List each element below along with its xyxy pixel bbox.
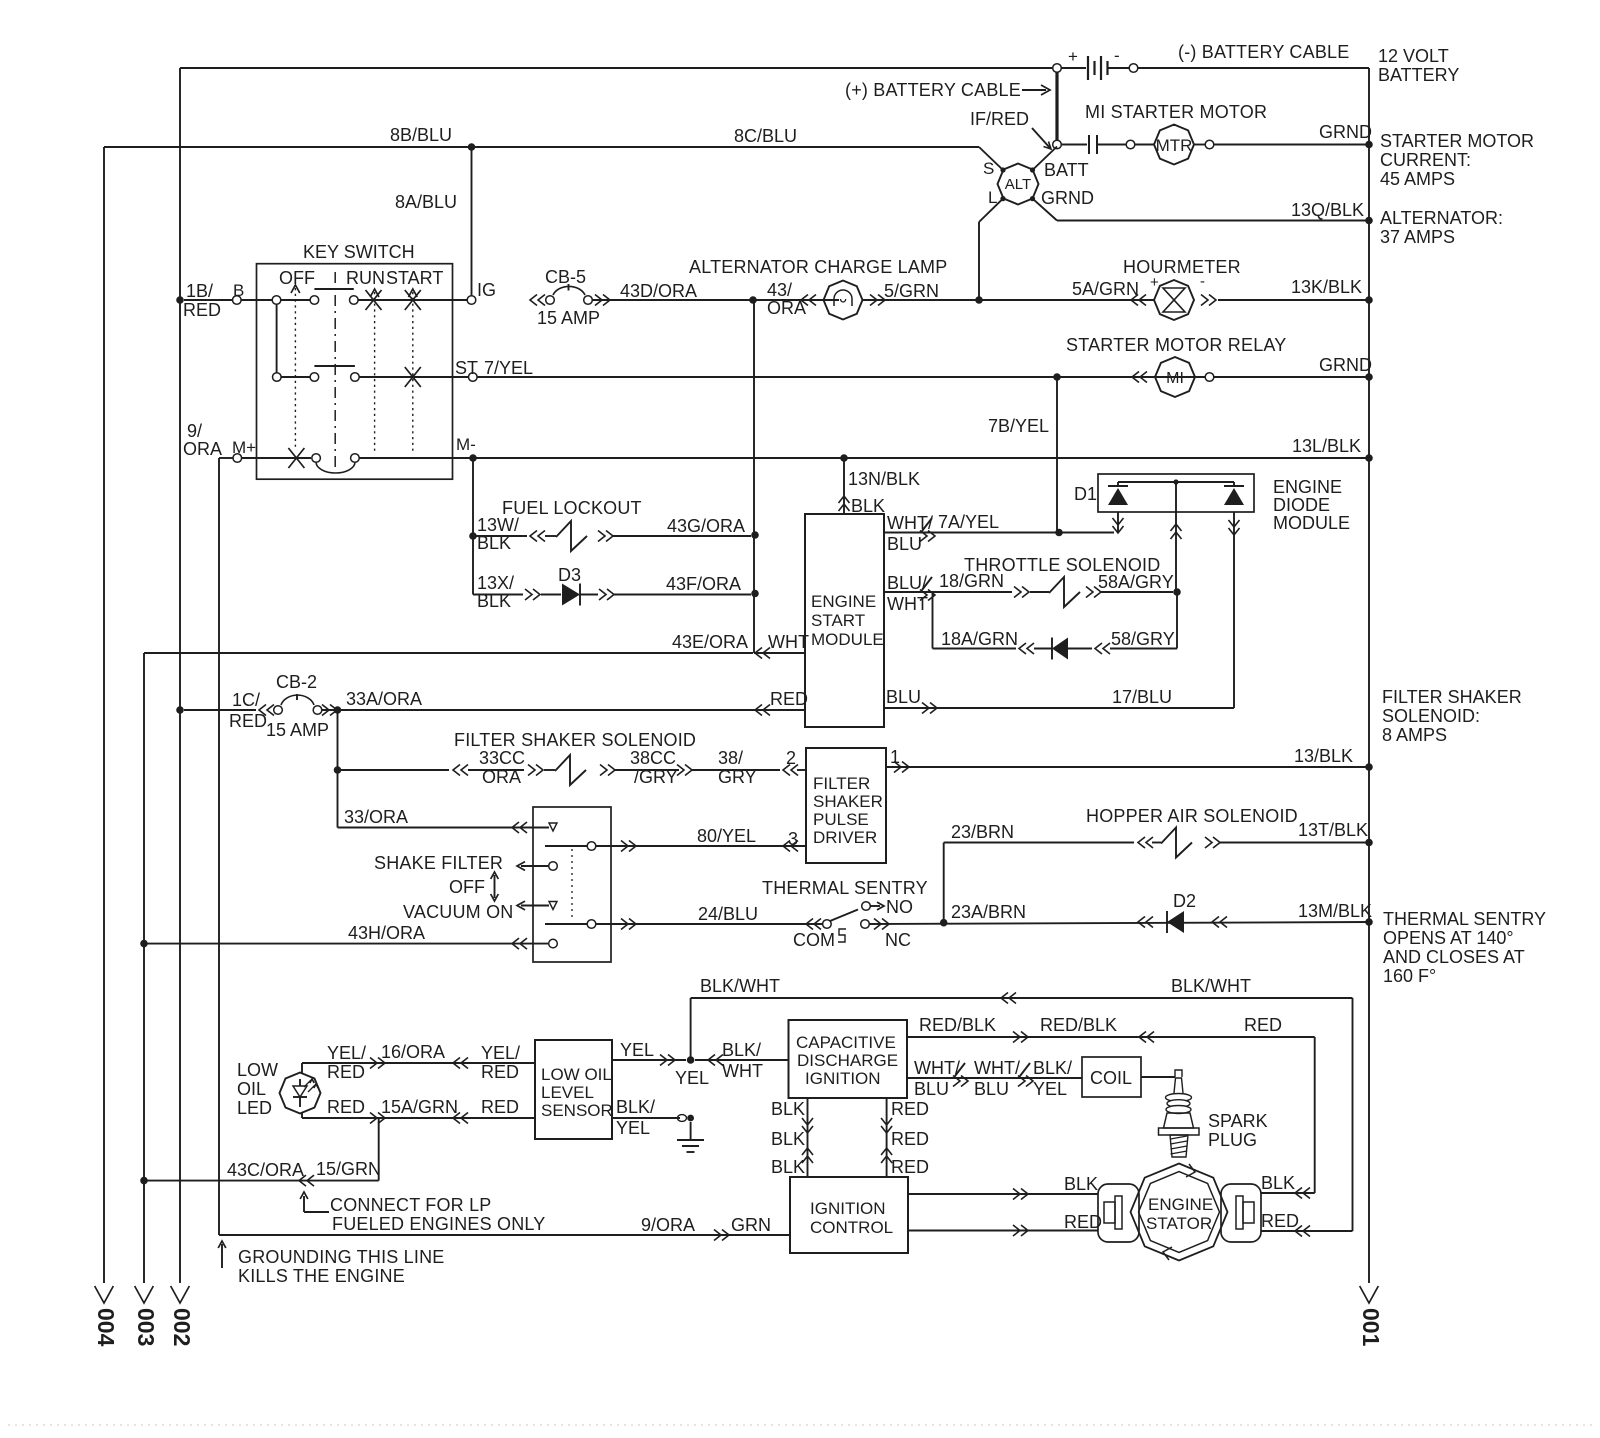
svg-text:RED: RED	[891, 1157, 929, 1177]
svg-text:43/: 43/	[767, 280, 792, 300]
svg-text:WHT/: WHT/	[914, 1058, 960, 1078]
svg-text:16/ORA: 16/ORA	[381, 1042, 445, 1062]
svg-text:13T/BLK: 13T/BLK	[1298, 820, 1368, 840]
wire 33A/ORA to ESM RED pin	[322, 689, 808, 716]
node 43C junction on bus 003	[140, 1177, 148, 1185]
svg-text:33A/ORA: 33A/ORA	[346, 689, 422, 709]
wire diode module right leg to 17/BLU	[1229, 512, 1240, 708]
node 43F junction	[751, 590, 759, 598]
svg-text:BATTERY: BATTERY	[1378, 65, 1459, 85]
hopper air solenoid	[944, 806, 1369, 923]
wire stator RED return right side	[1261, 998, 1353, 1237]
svg-text:YEL/: YEL/	[327, 1043, 366, 1063]
wire bus 003 (43E feed)	[133, 653, 159, 1346]
node 43G junction	[751, 531, 759, 539]
svg-text:/GRY: /GRY	[634, 767, 678, 787]
svg-text:ORA: ORA	[183, 439, 222, 459]
svg-text:BLU/: BLU/	[887, 573, 927, 593]
shake filter vacuum switch box	[533, 807, 611, 962]
svg-text:COM: COM	[793, 930, 835, 950]
node 43/ORA junction	[749, 280, 806, 318]
svg-text:BLU: BLU	[914, 1079, 949, 1099]
svg-text:13/BLK: 13/BLK	[1294, 746, 1353, 766]
node M- wire to bus junction	[1365, 454, 1373, 462]
svg-text:MTR: MTR	[1156, 136, 1193, 155]
svg-text:WHT: WHT	[722, 1061, 763, 1081]
svg-text:GRND: GRND	[1319, 355, 1372, 375]
wire BLK/WHT vertical to YEL node	[690, 998, 692, 1060]
svg-text:160 F°: 160 F°	[1383, 966, 1436, 986]
wire diode module center leg to 58A	[1171, 482, 1182, 592]
label off / vacuum on with arrow	[403, 872, 513, 922]
wire BLK/YEL sensor to ground	[612, 1097, 694, 1139]
svg-text:M+: M+	[232, 438, 256, 457]
svg-text:33/ORA: 33/ORA	[344, 807, 408, 827]
svg-text:18/GRN: 18/GRN	[939, 571, 1004, 591]
starter motor relay MI	[1066, 335, 1372, 397]
filter shaker pulse driver box	[806, 748, 886, 863]
svg-text:ALTERNATOR CHARGE LAMP: ALTERNATOR CHARGE LAMP	[689, 257, 947, 277]
node key switch IG terminal	[467, 280, 496, 304]
svg-text:KILLS THE ENGINE: KILLS THE ENGINE	[238, 1266, 405, 1286]
svg-text:IGNITION: IGNITION	[810, 1199, 886, 1218]
svg-text:DIODE: DIODE	[1273, 495, 1330, 515]
dashed line OFF position	[291, 285, 300, 450]
svg-text:RED: RED	[327, 1097, 365, 1117]
wire bus 004 (battery feed)	[93, 147, 119, 1347]
svg-text:38/: 38/	[718, 748, 743, 768]
svg-text:YEL: YEL	[620, 1040, 654, 1060]
svg-text:-: -	[1200, 273, 1205, 290]
wire 24/BLU switch to thermal sentry	[545, 904, 822, 930]
svg-text:B: B	[233, 281, 244, 300]
contact bridge bar row1	[314, 288, 353, 290]
label MI starter motor	[1085, 102, 1267, 122]
wire 7B/YEL vertical	[1056, 377, 1058, 533]
svg-text:ORA: ORA	[482, 767, 521, 787]
svg-text:9/: 9/	[187, 421, 202, 441]
svg-text:58/GRY: 58/GRY	[1111, 629, 1175, 649]
svg-text:+: +	[1068, 47, 1078, 66]
key switch box	[257, 242, 453, 479]
dashed line START position	[408, 289, 417, 452]
dash-dot mechanical link line	[334, 272, 336, 470]
svg-text:SPARK: SPARK	[1208, 1111, 1268, 1131]
svg-text:LED: LED	[237, 1098, 272, 1118]
wire coil to spark plug	[1141, 1076, 1175, 1078]
svg-text:SHAKE FILTER: SHAKE FILTER	[374, 853, 503, 873]
capacitive discharge ignition box	[789, 1020, 908, 1098]
svg-text:23A/BRN: 23A/BRN	[951, 902, 1026, 922]
svg-text:43D/ORA: 43D/ORA	[620, 281, 697, 301]
svg-text:M-: M-	[456, 435, 476, 454]
svg-text:CAPACITIVE: CAPACITIVE	[796, 1033, 896, 1052]
svg-text:13K/BLK: 13K/BLK	[1291, 277, 1362, 297]
wire 33/ORA to switch	[338, 807, 558, 833]
label 9/ORA	[183, 421, 222, 459]
filter shaker solenoid	[341, 730, 806, 787]
svg-text:13W/: 13W/	[477, 515, 519, 535]
svg-text:002: 002	[169, 1308, 195, 1346]
svg-text:15 AMP: 15 AMP	[537, 308, 600, 328]
svg-text:SENSOR: SENSOR	[541, 1101, 613, 1120]
svg-text:FILTER SHAKER: FILTER SHAKER	[1382, 687, 1522, 707]
svg-text:STATOR: STATOR	[1146, 1214, 1212, 1233]
svg-text:STARTER MOTOR: STARTER MOTOR	[1380, 131, 1534, 151]
wire (-) battery cable to ground bus	[1138, 42, 1369, 68]
wire 13/BLK FSPD pin1 to ground bus	[886, 746, 1369, 773]
switch internal dotted link	[571, 849, 573, 919]
svg-text:43E/ORA: 43E/ORA	[672, 632, 748, 652]
svg-text:YEL: YEL	[616, 1118, 650, 1138]
wire BLK/WHT junction to CDI	[695, 1040, 789, 1081]
svg-text:13L/BLK: 13L/BLK	[1292, 436, 1361, 456]
coil box	[1082, 1057, 1141, 1097]
svg-text:WHT: WHT	[768, 632, 809, 652]
svg-text:BLK/: BLK/	[1033, 1058, 1072, 1078]
svg-text:RED: RED	[891, 1129, 929, 1149]
svg-text:RED: RED	[183, 300, 221, 320]
wire WHT/BLU CDI to coil	[907, 1058, 1082, 1099]
svg-text:KEY SWITCH: KEY SWITCH	[303, 242, 415, 262]
svg-text:GRND: GRND	[1319, 122, 1372, 142]
node 7B/YEL junction	[988, 373, 1061, 436]
svg-text:WHT/: WHT/	[887, 513, 933, 533]
svg-text:GRY: GRY	[718, 767, 757, 787]
engine start module U-ESM	[805, 514, 884, 727]
label starter motor current 45 amps	[1380, 131, 1534, 189]
label (+) battery cable with arrow	[845, 80, 1050, 100]
svg-text:HOPPER AIR SOLENOID: HOPPER AIR SOLENOID	[1086, 806, 1298, 826]
svg-text:MI STARTER MOTOR: MI STARTER MOTOR	[1085, 102, 1267, 122]
svg-text:ENGINE: ENGINE	[811, 592, 876, 611]
svg-text:THERMAL SENTRY: THERMAL SENTRY	[762, 878, 928, 898]
battery BT1 12 volt	[1068, 46, 1130, 80]
svg-text:CB-2: CB-2	[276, 672, 317, 692]
svg-text:D3: D3	[558, 565, 581, 585]
node IF/RED junction	[970, 109, 1061, 149]
wire ALT L down to charge-lamp row	[979, 199, 1003, 300]
node YEL junction	[675, 1056, 709, 1088]
node 33C junction	[334, 766, 342, 774]
svg-text:7A/YEL: 7A/YEL	[938, 512, 999, 532]
node 13W junction	[469, 532, 477, 540]
svg-text:13N/BLK: 13N/BLK	[848, 469, 920, 489]
alternator ALT	[983, 159, 1094, 208]
svg-text:RED/BLK: RED/BLK	[919, 1015, 996, 1035]
svg-text:18A/GRN: 18A/GRN	[941, 629, 1018, 649]
svg-text:SOLENOID:: SOLENOID:	[1382, 706, 1480, 726]
svg-text:45 AMPS: 45 AMPS	[1380, 169, 1455, 189]
svg-text:LOW: LOW	[237, 1060, 278, 1080]
svg-text:RUN: RUN	[346, 268, 385, 288]
svg-text:YEL: YEL	[675, 1068, 709, 1088]
wire 43C/ORA 15/GRN	[144, 1118, 381, 1186]
svg-text:ENGINE: ENGINE	[1148, 1195, 1213, 1214]
wire key switch row M+ to M-	[219, 435, 1369, 462]
svg-text:7B/YEL: 7B/YEL	[988, 416, 1049, 436]
wire 7A/YEL ESM to diode module	[884, 512, 1114, 554]
node 23A junction	[940, 919, 948, 927]
svg-text:8A/BLU: 8A/BLU	[395, 192, 457, 212]
wire 23A/BRN	[869, 902, 1369, 924]
svg-text:OFF: OFF	[449, 877, 485, 897]
wire YEL/RED 16/ORA to sensor	[302, 1042, 535, 1082]
svg-text:BLK: BLK	[771, 1129, 805, 1149]
svg-text:FUELED ENGINES ONLY: FUELED ENGINES ONLY	[332, 1214, 546, 1234]
svg-text:PULSE: PULSE	[813, 810, 869, 829]
node 13N junction on M- wire	[840, 454, 848, 462]
fuel lockout solenoid	[473, 498, 751, 553]
svg-text:BLK: BLK	[1261, 1173, 1295, 1193]
svg-text:PLUG: PLUG	[1208, 1130, 1257, 1150]
svg-text:HOURMETER: HOURMETER	[1123, 257, 1241, 277]
svg-text:DISCHARGE: DISCHARGE	[797, 1051, 898, 1070]
svg-text:2: 2	[786, 748, 796, 768]
svg-text:43F/ORA: 43F/ORA	[666, 574, 741, 594]
svg-text:23/BRN: 23/BRN	[951, 822, 1014, 842]
svg-text:3: 3	[788, 829, 798, 849]
svg-text:LEVEL: LEVEL	[541, 1083, 594, 1102]
svg-text:CB-5: CB-5	[545, 267, 586, 287]
wire hourmeter to ground bus	[1218, 299, 1369, 301]
svg-text:BLK/: BLK/	[722, 1040, 761, 1060]
svg-text:AND CLOSES AT: AND CLOSES AT	[1383, 947, 1525, 967]
svg-text:RED: RED	[1244, 1015, 1282, 1035]
svg-text:5A/GRN: 5A/GRN	[1072, 279, 1139, 299]
svg-text:MI: MI	[1166, 370, 1184, 387]
alternator charge lamp	[689, 257, 947, 320]
svg-text:IG: IG	[477, 280, 496, 300]
svg-text:SHAKER: SHAKER	[813, 792, 883, 811]
svg-text:-: -	[1114, 46, 1120, 65]
svg-text:BLK/: BLK/	[616, 1097, 655, 1117]
wire 8A/BLU down to key switch IG	[395, 147, 472, 296]
wire 8B/BLU 8C/BLU (battery feed to alternator S)	[104, 125, 1003, 170]
svg-text:DRIVER: DRIVER	[813, 828, 877, 847]
wire 5/GRN to hourmeter	[863, 299, 1154, 301]
svg-text:BLK: BLK	[477, 533, 511, 553]
svg-text:33CC: 33CC	[479, 748, 525, 768]
svg-text:12 VOLT: 12 VOLT	[1378, 46, 1449, 66]
diode module internal bar	[1118, 479, 1234, 484]
node 1B/RED junction on bus 002	[176, 281, 221, 320]
ground symbol	[677, 1140, 704, 1152]
wire 7/YEL key switch ST to relay	[477, 376, 1369, 378]
svg-text:FUEL LOCKOUT: FUEL LOCKOUT	[502, 498, 642, 518]
svg-text:STARTER MOTOR RELAY: STARTER MOTOR RELAY	[1066, 335, 1287, 355]
contact X start position row2	[405, 367, 421, 387]
svg-text:001: 001	[1358, 1308, 1384, 1347]
svg-text:ALTERNATOR:: ALTERNATOR:	[1380, 208, 1503, 228]
svg-text:BATT: BATT	[1044, 160, 1089, 180]
svg-text:BLK: BLK	[851, 496, 885, 516]
contact bridge bar row2	[314, 365, 355, 367]
wire M- down to fuel lockout rows	[472, 458, 474, 595]
svg-text:5/GRN: 5/GRN	[884, 281, 939, 301]
wire IC BLK to stator	[908, 1174, 1098, 1200]
wire YEL sensor to junction	[612, 1040, 686, 1066]
svg-text:003: 003	[133, 1308, 159, 1346]
wire (+) battery cable (heavy)	[1055, 72, 1058, 141]
svg-text:8B/BLU: 8B/BLU	[390, 125, 452, 145]
wire 9/ORA GRN grounding line	[219, 1215, 790, 1241]
svg-text:RED: RED	[891, 1099, 929, 1119]
svg-text:15 AMP: 15 AMP	[266, 720, 329, 740]
svg-text:13Q/BLK: 13Q/BLK	[1291, 200, 1364, 220]
node junction 8B/8A	[468, 143, 476, 151]
svg-text:MODULE: MODULE	[811, 630, 884, 649]
svg-text:FILTER SHAKER SOLENOID: FILTER SHAKER SOLENOID	[454, 730, 696, 750]
wire IC RED to stator	[908, 1212, 1102, 1236]
svg-text:80/YEL: 80/YEL	[697, 826, 756, 846]
wire CDI RED to ignition control	[881, 1098, 929, 1177]
svg-text:1: 1	[890, 747, 900, 767]
label 13L/BLK	[1292, 436, 1361, 456]
wire key switch row ST	[273, 373, 469, 382]
wire 43D/ORA	[592, 281, 839, 301]
label 12 volt battery	[1378, 46, 1459, 85]
svg-text:ENGINE: ENGINE	[1273, 477, 1342, 497]
svg-text:GROUNDING THIS LINE: GROUNDING THIS LINE	[238, 1247, 445, 1267]
decoration bottom perforation line	[8, 1424, 1592, 1426]
wire 43H/ORA to switch	[144, 923, 557, 949]
svg-text:FILTER: FILTER	[813, 774, 870, 793]
stator right plug	[1221, 1184, 1261, 1242]
svg-text:D1: D1	[1074, 484, 1097, 504]
stator left plug	[1098, 1184, 1139, 1242]
svg-text:RED: RED	[770, 689, 808, 709]
low oil LED	[237, 1060, 321, 1118]
svg-text:1C/: 1C/	[232, 690, 260, 710]
wire 80/YEL switch to FSPD pin3	[545, 826, 806, 852]
svg-text:RED: RED	[481, 1062, 519, 1082]
throttle solenoid	[884, 555, 1174, 614]
switch position arrow shake filter	[374, 853, 557, 873]
svg-text:38CC: 38CC	[630, 748, 676, 768]
svg-text:THERMAL SENTRY: THERMAL SENTRY	[1383, 909, 1546, 929]
svg-text:BLU: BLU	[887, 534, 922, 554]
circuit breaker CB-2 15 amp	[184, 672, 337, 740]
svg-text:13M/BLK: 13M/BLK	[1298, 901, 1372, 921]
svg-text:IF/RED: IF/RED	[970, 109, 1029, 129]
svg-text:CURRENT:: CURRENT:	[1380, 150, 1471, 170]
node charge lamp / ALT-L junction	[975, 296, 983, 304]
svg-text:43H/ORA: 43H/ORA	[348, 923, 425, 943]
switch position arrow vacuum on	[517, 901, 557, 910]
svg-text:YEL: YEL	[1033, 1079, 1067, 1099]
wire BLK/WHT top run	[691, 976, 1353, 1004]
node 58A junction	[1173, 588, 1181, 596]
svg-text:CONTROL: CONTROL	[810, 1218, 893, 1237]
svg-text:GRND: GRND	[1041, 188, 1094, 208]
contact X start position row1	[405, 290, 421, 310]
wire RED 15A/GRN to sensor	[302, 1097, 535, 1124]
svg-text:OFF: OFF	[279, 268, 315, 288]
svg-text:9/ORA: 9/ORA	[641, 1215, 695, 1235]
wire key switch common vertical	[276, 304, 278, 373]
svg-text:RED: RED	[1261, 1211, 1299, 1231]
svg-text:8 AMPS: 8 AMPS	[1382, 725, 1447, 745]
wire BLU 17/BLU from ESM to diode leg	[884, 687, 1234, 714]
arrow ground bus 001	[1358, 1286, 1384, 1347]
wire ALT BATT to IF/RED node	[1033, 147, 1058, 171]
diode D1 left	[1108, 482, 1128, 505]
wire CDI BLK to ignition control	[771, 1098, 813, 1177]
svg-text:15/GRN: 15/GRN	[316, 1159, 381, 1179]
svg-text:BLK/WHT: BLK/WHT	[700, 976, 780, 996]
wire starter motor to ground bus	[1214, 122, 1372, 145]
diode D1 right	[1224, 482, 1244, 505]
wire bus 002 (1B/RED feed)	[169, 68, 195, 1346]
svg-text:004: 004	[93, 1308, 119, 1347]
starter solenoid contact plates	[1061, 135, 1126, 154]
diode D2	[1138, 891, 1372, 933]
svg-text:MODULE: MODULE	[1273, 513, 1350, 533]
svg-text:1B/: 1B/	[186, 281, 213, 301]
node battery - terminal	[1129, 64, 1138, 73]
svg-text:RED: RED	[1064, 1212, 1102, 1232]
svg-text:RED: RED	[327, 1062, 365, 1082]
svg-text:NC: NC	[885, 930, 911, 950]
svg-text:START: START	[386, 268, 443, 288]
svg-text:8C/BLU: 8C/BLU	[734, 126, 797, 146]
svg-text:VACUUM ON: VACUUM ON	[403, 902, 513, 922]
svg-text:58A/GRY: 58A/GRY	[1098, 572, 1174, 592]
svg-text:CONNECT FOR LP: CONNECT FOR LP	[330, 1195, 492, 1215]
wire 13N/BLK ESM top pin	[839, 458, 921, 516]
svg-text:17/BLU: 17/BLU	[1112, 687, 1172, 707]
node key switch M- junction	[469, 454, 477, 462]
svg-text:+: +	[1150, 274, 1159, 291]
wire battery positive (top bus from key-switch feed)	[180, 67, 1053, 69]
contact X off position row3	[288, 448, 304, 468]
label alternator 37 amps	[1380, 208, 1503, 247]
svg-text:RED: RED	[229, 711, 267, 731]
svg-text:24/BLU: 24/BLU	[698, 904, 758, 924]
svg-text:(+) BATTERY CABLE: (+) BATTERY CABLE	[845, 80, 1021, 100]
svg-text:13X/: 13X/	[477, 573, 514, 593]
svg-text:BLU: BLU	[886, 687, 921, 707]
wire key switch row B-IG	[184, 281, 467, 304]
hourmeter	[1072, 257, 1362, 320]
svg-text:OIL: OIL	[237, 1079, 266, 1099]
wire 43/ORA vertical	[753, 300, 755, 653]
circuit breaker CB-5 15 amp	[530, 267, 610, 328]
svg-text:15A/GRN: 15A/GRN	[381, 1097, 458, 1117]
label thermal sentry note	[1383, 909, 1546, 986]
svg-text:D2: D2	[1173, 891, 1196, 911]
ignition control box	[790, 1177, 908, 1253]
svg-text:YEL/: YEL/	[481, 1043, 520, 1063]
label filter shaker solenoid 8 amps	[1382, 687, 1522, 745]
svg-text:S: S	[983, 159, 994, 178]
node key switch ST terminal	[455, 358, 533, 381]
contact bridge loop row3	[316, 462, 355, 473]
low oil level sensor box	[535, 1040, 613, 1139]
svg-text:START: START	[811, 611, 865, 630]
svg-text:7/YEL: 7/YEL	[484, 358, 533, 378]
svg-text:COIL: COIL	[1090, 1068, 1132, 1088]
svg-text:OPENS AT 140°: OPENS AT 140°	[1383, 928, 1514, 948]
node 43H junction on bus 003	[140, 940, 148, 948]
wire 33C/ORA vertical	[337, 710, 339, 828]
starter motor MTR	[1126, 125, 1214, 165]
wire RED/BLK from CDI to stator BLK	[907, 1015, 1315, 1199]
wire 18A/GRN loop	[933, 592, 1178, 660]
svg-text:43C/ORA: 43C/ORA	[227, 1160, 304, 1180]
svg-text:(-) BATTERY CABLE: (-) BATTERY CABLE	[1178, 42, 1349, 62]
